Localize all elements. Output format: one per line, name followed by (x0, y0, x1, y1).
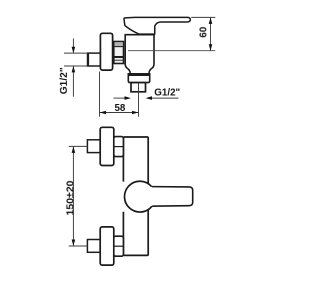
mixer body (side view) (125, 27, 155, 75)
dimension: left G1/2 (wall stub size) (64, 39, 88, 97)
wall inlet stub (side view) (88, 53, 101, 66)
top wall stub (plan) (87, 140, 100, 153)
top nut (plan) (114, 137, 124, 157)
bottom nut (plan) (114, 236, 124, 256)
dimension: 150±20 (69, 146, 88, 246)
dimension: 60 (right side) (191, 17, 215, 50)
outlet flange (128, 73, 149, 82)
handle pivot circle (plan) (124, 181, 155, 212)
mixer body (plan) (123, 137, 148, 255)
svg-text:60: 60 (199, 26, 210, 37)
dimension: 58 (bottom of top view) (100, 72, 139, 117)
bottom escutcheon (plan) (100, 227, 114, 265)
svg-text:G1/2": G1/2" (59, 67, 70, 94)
handle lever (plan) (140, 187, 193, 207)
lever handle (side view) (124, 17, 190, 34)
centerline extension (60 dim lower reference) (128, 50, 215, 52)
svg-text:150±20: 150±20 (64, 180, 76, 215)
connection nut (side view) (114, 42, 124, 64)
wall escutcheon (side view) (100, 33, 112, 70)
svg-text:58: 58 (114, 103, 125, 114)
callout: outlet G1/2 arrows (114, 97, 179, 99)
bottom wall stub (plan) (87, 240, 100, 253)
svg-text:G1/2": G1/2" (154, 87, 180, 98)
top escutcheon (plan) (100, 127, 114, 165)
outlet stub G1/2 (131, 83, 146, 92)
